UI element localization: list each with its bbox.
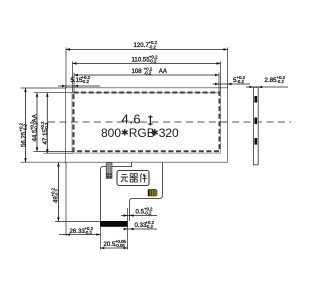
arrows 108 [74,74,78,77]
label 49 rotated [51,187,60,203]
glyph 件 [140,173,147,182]
label 120.7 [134,40,158,49]
ext VA bottom left [44,152,73,154]
svg-text:108: 108 [132,68,143,75]
dim line 120.7 [66,48,228,50]
arrows 120.7 [66,48,70,51]
arrows 0.33 [124,228,128,231]
svg-text:800: 800 [101,126,121,140]
svg-text:120.7: 120.7 [134,42,150,49]
svg-text:-0.05: -0.05 [115,243,125,248]
svg-text:AA: AA [159,68,168,75]
arrows 5 [215,83,219,86]
small striped connector at module bottom [106,163,112,179]
ext module bottom left [21,161,67,163]
svg-text:47.15: 47.15 [42,129,49,145]
svg-text:-0.2: -0.2 [55,188,60,196]
svg-text:-0.2: -0.2 [237,79,245,84]
inch tick symbol crossed by centerline [148,115,152,125]
component box label 元器件 [117,171,149,186]
svg-text:-0.2: -0.2 [85,230,93,235]
AA rectangle (active area, thick dashed) [74,93,220,152]
svg-text:26.33: 26.33 [70,228,86,235]
arrows 44.5 [36,93,39,97]
svg-text:-0.2: -0.2 [82,79,90,84]
dim line 56.25 [25,88,27,162]
side view tape mark 2 [254,118,257,125]
VA rectangle (viewing area, solid thin) [72,93,221,153]
arrows 26.33 [66,233,70,236]
svg-text:-0.2: -0.2 [149,59,157,64]
label 5 [233,75,246,84]
svg-text:320: 320 [159,126,179,140]
dim line 47.15 [46,93,48,153]
svg-text:-0.2: -0.2 [23,123,28,131]
ext tail left below bar [99,227,101,250]
label 0.33 [135,220,155,229]
svg-text:4.6: 4.6 [122,112,142,127]
dim line 108 AA [74,74,219,76]
svg-text:2.85: 2.85 [265,77,277,84]
ext module right up [227,48,229,89]
ext module left up [65,48,67,89]
dimension lines group [26,49,289,248]
svg-text:-0.2: -0.2 [144,211,152,216]
label 44.5 AA rotated [30,113,39,141]
dim line 2.85 [246,86,288,88]
extension lines group [21,48,228,250]
dimension labels [19,40,286,248]
arrows 47.15 [46,93,49,97]
svg-text:-0.2: -0.2 [144,71,152,76]
FPC outline [101,162,163,221]
dim line 0.5 [121,215,157,217]
module outline (front view) [66,88,228,163]
ext VA/AA right up [220,61,222,92]
arrows 0.5 [124,214,128,217]
arrows 49 [57,163,60,167]
ext tail right (0.5/0.33/20.5) [127,208,129,250]
dim line 49 [57,163,59,222]
arrows 5.15 [62,85,66,88]
dim line 20.5 [100,247,127,249]
glyph 元 [121,174,129,182]
arrows 2.85 [249,86,253,89]
ext AA top left [34,92,75,94]
olive FPC connector [148,189,158,196]
svg-text:-0.2: -0.2 [277,79,285,84]
side view bar [253,87,258,165]
arrows 110.55 [73,62,77,65]
label 108 AA [132,66,168,75]
FPC gold contact bar (black stiffener) [100,221,128,227]
svg-text:-0.2: -0.2 [44,122,49,130]
ext module top left [21,87,67,89]
glyph 器 [129,174,138,182]
arrowheads [24,48,262,249]
dim line 5 [213,83,251,85]
label 20.5 [104,239,127,248]
svg-text:RGB: RGB [129,126,155,140]
center dashed line (horizontal axis) [48,121,291,123]
svg-text:-0.2: -0.2 [149,44,157,49]
arrows 20.5 [100,247,104,250]
label 2.85 [265,75,286,84]
svg-text:56.25: 56.25 [21,131,28,147]
dim line 26.33 [59,234,100,236]
svg-text:110.55: 110.55 [132,56,151,63]
dim line 5.15 [58,85,100,87]
label 56.25 rotated [19,122,28,147]
ext module-left down (26.33) [65,162,67,236]
ext bar-top level left (49 dim bottom) [55,220,100,222]
label 110.55 [132,54,159,63]
dim line 0.33 [124,228,158,230]
label 0.5 [136,207,154,216]
ext AA bottom left [34,150,75,152]
label 26.33 [70,226,94,235]
side view tape mark 3 [254,138,257,145]
svg-text:AA: AA [32,113,39,122]
dim line 44.5 AA [36,93,38,152]
svg-text:-0.2: -0.2 [146,224,154,229]
side view tape mark 1 [254,96,257,103]
label 5.15 [71,75,91,84]
label 47.15 rotated [40,121,49,145]
dim line 110.55 [73,62,221,64]
ext VA/AA left up [72,61,74,92]
arrows 56.25 [24,88,27,92]
